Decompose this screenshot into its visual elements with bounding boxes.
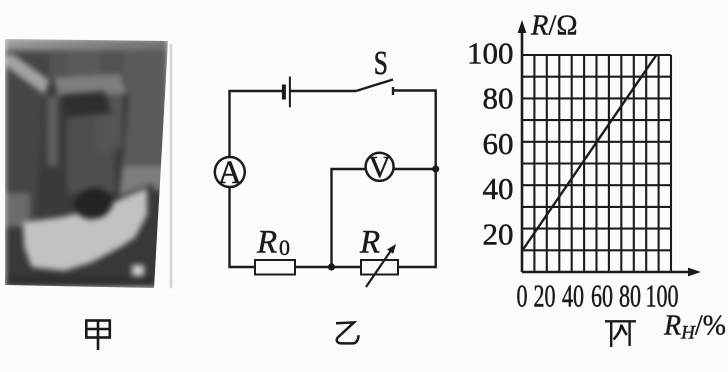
battery B: short thick plate (negative): [282, 85, 286, 100]
floor dark bottom strip: [5, 276, 168, 287]
y tick labels: [467, 35, 514, 251]
wire ammeter bottom to bottom-left corner: [230, 187, 256, 267]
wire right side: junction to bottom-right corner: [398, 169, 436, 267]
wire top-left corner: battery to ammeter: [230, 91, 283, 157]
wire R0 to junction to R: [295, 266, 361, 268]
body left edge highlight: [47, 96, 58, 166]
wire battery to switch: [290, 90, 356, 92]
soft contrast overlay: [5, 38, 168, 288]
body tank lighter middle: [67, 113, 115, 193]
top light strip: [5, 38, 168, 50]
R vs RH line: [522, 56, 656, 252]
left table ledge medium band: [5, 193, 30, 227]
under-lip shadow: [61, 91, 113, 117]
svg-text:20: 20: [534, 278, 556, 313]
svg-text:R: R: [256, 224, 277, 260]
switch S right contact tick: [392, 87, 394, 95]
svg-text:20: 20: [483, 217, 514, 252]
photo background dark left: [5, 54, 49, 269]
dark right extension: [153, 190, 168, 288]
photo of humidifier (scene 甲): [5, 38, 168, 288]
svg-text:RH/%: RH/%: [663, 311, 726, 344]
wire voltmeter right to junction: [394, 168, 436, 170]
svg-text:60: 60: [483, 126, 514, 161]
white logo speck bottom right: [132, 265, 144, 276]
wire voltmeter left to middle branch corner: [332, 169, 366, 267]
caption 乙: [336, 322, 359, 343]
y-axis R/Ohm: [521, 28, 524, 272]
body top surface: [52, 74, 127, 97]
right table edge band: [117, 166, 168, 204]
x tick labels: [516, 278, 678, 313]
battery B: long thin plate (positive): [289, 77, 291, 108]
svg-text:40: 40: [562, 278, 584, 313]
svg-text:60: 60: [591, 278, 613, 313]
switch S blade: [356, 80, 393, 92]
grid horizontal lines: [522, 55, 671, 250]
darker vertical band top right: [101, 38, 123, 100]
photo background base gray: [5, 38, 168, 288]
body right lighter panel: [95, 93, 125, 153]
mist streak to spout: [1, 51, 69, 106]
svg-text:0: 0: [279, 235, 290, 260]
dark hole: [71, 184, 116, 222]
dark floor region around base: [5, 38, 153, 287]
svg-text:80: 80: [483, 81, 514, 116]
rheostat arrow: [366, 249, 392, 287]
caption 丙: [605, 321, 636, 347]
svg-text:A: A: [218, 155, 242, 191]
junction dot bottom (node between R0 and R): [328, 263, 335, 270]
wire switch to top-right corner down to voltmeter junction: [393, 91, 436, 170]
photo background upper right: [67, 38, 168, 173]
humidifier body: [35, 74, 129, 223]
junction dot right (node V+ / R side): [432, 165, 439, 172]
voltmeter U2 circle: [366, 153, 394, 181]
svg-text:100: 100: [645, 278, 678, 313]
svg-text:S: S: [374, 43, 388, 81]
svg-text:100: 100: [467, 35, 514, 70]
spout bright blob: [51, 78, 76, 92]
x-axis RH/%: [522, 271, 696, 274]
svg-text:80: 80: [619, 278, 641, 313]
svg-text:40: 40: [483, 171, 514, 206]
resistor R (rheostat) box: [361, 260, 398, 275]
rheostat arrowhead: [387, 244, 396, 254]
resistor R0 box: [255, 260, 295, 275]
grid vertical lines: [534, 55, 671, 272]
ammeter U1 circle: [215, 157, 245, 187]
svg-text:R: R: [359, 224, 380, 260]
white base of humidifier: [5, 38, 153, 287]
svg-text:R/Ω: R/Ω: [530, 11, 578, 42]
caption 甲: [86, 321, 110, 351]
faint scan shadow line right of photo: [170, 44, 172, 288]
svg-text:V: V: [368, 149, 391, 184]
svg-text:0: 0: [516, 278, 527, 313]
